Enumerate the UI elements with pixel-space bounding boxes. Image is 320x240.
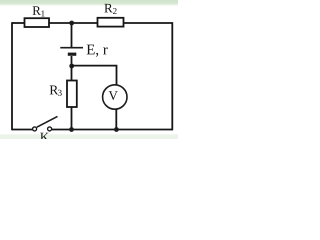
resistor R1 (25, 18, 50, 27)
wire: R3 to bottom (71, 107, 73, 130)
label R3 (50, 86, 59, 95)
top green band (0, 0, 178, 6)
voltmeter V (103, 85, 127, 109)
label R2 (104, 4, 112, 13)
switch K right contact (48, 127, 52, 131)
wire: voltmeter to bottom (115, 109, 117, 130)
wire: left side (11, 22, 13, 130)
node: voltmeter bottom junction (114, 127, 119, 132)
node: junction between R1 and R2 (69, 21, 74, 26)
resistor R2 (98, 18, 124, 27)
battery E,r long plate (60, 47, 83, 49)
bottom faint green band (0, 134, 178, 139)
label E, r (87, 45, 108, 57)
wire: battery branch upper (71, 23, 73, 47)
label V (109, 91, 118, 100)
wire: bottom left to switch (12, 129, 33, 131)
wire: right side (171, 22, 173, 130)
wire: jumper from battery node to voltmeter branch (72, 66, 117, 86)
switch K left contact (33, 127, 37, 131)
wire: top side middle segment (49, 22, 98, 24)
node: R3 bottom junction (69, 127, 74, 132)
label R1 (33, 6, 41, 15)
wire: battery branch lower (71, 56, 73, 81)
wire: top side left segment (12, 22, 25, 24)
wire: top side right segment (124, 22, 173, 24)
wire: switch to bottom right (52, 129, 173, 131)
resistor R3 (67, 81, 77, 108)
node: below battery (69, 64, 74, 69)
switch K lever (37, 116, 58, 127)
label K (40, 133, 49, 142)
battery E,r short plate (68, 53, 77, 56)
